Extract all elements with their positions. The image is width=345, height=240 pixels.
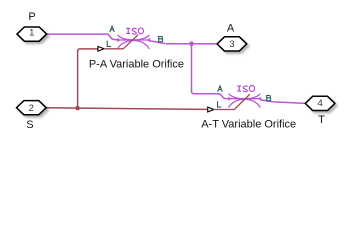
svg-text:3: 3 <box>229 39 234 50</box>
orifice U2 icon: ISO text <box>237 86 254 92</box>
connection port 2 hexagon <box>17 101 47 115</box>
wire port1 to orifice U1 port A <box>47 34 117 40</box>
wire orifice U2 port B to port4 <box>261 100 305 103</box>
svg-text:A-T Variable Orifice: A-T Variable Orifice <box>201 119 296 131</box>
wire junction to port3 <box>192 43 218 45</box>
wire port2 to orifice U2 port L (maroon signal line) <box>46 108 207 110</box>
orifice U1 port label B <box>159 36 163 42</box>
svg-text:4: 4 <box>317 98 322 109</box>
svg-text:A: A <box>227 22 235 34</box>
orifice U1 icon: variable-control diagonal (maroon) <box>105 35 138 49</box>
orifice U2 physical-signal input triangle <box>208 107 214 112</box>
svg-text:P-A Variable Orifice: P-A Variable Orifice <box>89 58 184 70</box>
orifice U1 icon: flow line <box>120 39 148 41</box>
wire maroon branch up to orifice U1 port L <box>78 49 98 108</box>
orifice U2 port label L <box>218 101 222 107</box>
orifice U1 port label A <box>110 26 115 32</box>
wire orifice U1 port B to junction <box>150 41 191 44</box>
orifice U2 icon: top arc <box>229 94 261 99</box>
orifice U1 port label L <box>107 41 111 47</box>
svg-text:S: S <box>26 119 33 131</box>
svg-text:1: 1 <box>29 28 34 39</box>
connection port 1 hexagon <box>17 27 47 41</box>
svg-text:T: T <box>318 114 325 126</box>
orifice U2 icon: flow arrows <box>228 97 261 101</box>
connection port 4 hexagon <box>305 96 335 110</box>
orifice U1 icon: flow arrows <box>117 38 150 42</box>
orifice U2 icon: bottom arc <box>229 99 261 107</box>
orifice U1 physical-signal input triangle <box>98 46 104 51</box>
junction node dot <box>189 41 194 46</box>
orifice U1 icon: ISO text <box>126 28 143 34</box>
junction node dot on maroon net <box>75 106 80 111</box>
svg-text:P: P <box>28 11 35 23</box>
wire junction down to orifice U2 port A <box>192 44 228 99</box>
connection port 3 hexagon <box>217 37 247 51</box>
orifice U1 icon: bottom arc <box>118 41 150 49</box>
svg-text:2: 2 <box>29 103 34 114</box>
orifice U2 icon: flow line <box>231 98 259 100</box>
orifice U2 port label A <box>218 86 223 92</box>
orifice U2 port label B <box>267 95 271 101</box>
orifice U1 icon: top arc <box>118 35 150 40</box>
orifice U2 icon: variable-control diagonal (maroon) <box>214 95 249 110</box>
